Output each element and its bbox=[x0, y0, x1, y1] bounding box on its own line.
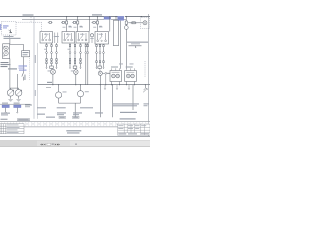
dashed vert right bbox=[144, 61, 146, 77]
fuse S3 drop bbox=[77, 17, 79, 21]
lamp H5 bbox=[98, 71, 102, 75]
inline connectors row4 bbox=[46, 61, 104, 64]
lamp H3 below bus bbox=[58, 85, 60, 92]
connector T3 inline bbox=[130, 22, 136, 24]
column wire c1 bbox=[46, 43, 48, 68]
title block right bbox=[118, 124, 150, 135]
dashed enclosure left bbox=[2, 22, 17, 36]
blue link box L2 bbox=[14, 105, 21, 108]
label text left of box bbox=[1, 119, 8, 120]
section divider2 bbox=[37, 43, 39, 119]
node J5 bbox=[97, 16, 98, 17]
bottom wires to labels bbox=[75, 85, 133, 118]
valve group Y2 box bbox=[125, 71, 137, 82]
connector box above H2 bbox=[73, 66, 77, 68]
motor M5 small bbox=[90, 34, 93, 37]
node J3 bbox=[77, 16, 78, 17]
column wire c6 bbox=[80, 43, 82, 68]
legend table bottom left bbox=[0, 124, 24, 134]
blue link box B1 bbox=[118, 16, 124, 18]
node dots bus31 bbox=[52, 84, 135, 85]
ruler numbers bbox=[3, 123, 148, 126]
blue link box L1 bbox=[2, 105, 9, 108]
drawing bottom border bbox=[0, 135, 150, 137]
fuse S4 drop bbox=[96, 17, 98, 21]
bottom label texts bbox=[1, 103, 149, 117]
column wire c3 bbox=[56, 43, 58, 68]
node J8 bbox=[141, 16, 142, 17]
wire below relay bbox=[23, 57, 25, 73]
ground G3g bbox=[16, 99, 21, 101]
bus31 label bbox=[47, 82, 52, 83]
wire below dashed bbox=[8, 35, 10, 37]
ground G2g bbox=[8, 99, 13, 101]
fuse S2 drop bbox=[66, 17, 68, 21]
title line above block bbox=[120, 118, 136, 119]
connector T1 inline bbox=[48, 21, 53, 23]
dashed vert drop to K1 bbox=[41, 22, 43, 31]
wire battery down bbox=[9, 59, 11, 90]
current track ruler bbox=[0, 121, 150, 127]
column wire c9 bbox=[103, 44, 105, 68]
wire end arrows bbox=[46, 68, 104, 69]
wire drop x109 bbox=[109, 17, 111, 32]
rotated text bbox=[24, 75, 25, 81]
relay K5 small box bbox=[22, 51, 30, 57]
label box T4b bbox=[73, 116, 80, 118]
wires below blue boxes bbox=[6, 108, 18, 112]
wire stub left bbox=[46, 87, 51, 89]
node J2 bbox=[66, 16, 67, 17]
connector box above H5 bbox=[98, 66, 102, 68]
lamp H1 bbox=[50, 69, 55, 74]
generator C circle bbox=[4, 46, 8, 50]
sender G3 bbox=[15, 90, 22, 97]
connector box above H1 bbox=[50, 66, 54, 68]
column wire c2 bbox=[51, 43, 53, 66]
dashed vert top bbox=[30, 17, 32, 22]
title center text bbox=[66, 130, 81, 133]
viewer toolbar bbox=[0, 141, 150, 147]
control unit U1 tall box bbox=[114, 20, 119, 46]
node J7 bbox=[126, 16, 127, 17]
lamp H4 below bus bbox=[80, 85, 82, 91]
column wire c6b bbox=[85, 43, 87, 85]
dashed horiz top bbox=[16, 21, 42, 23]
wire bus 15 second bbox=[22, 18, 126, 20]
blue text cluster bbox=[19, 66, 28, 67]
starter B circle bbox=[4, 51, 8, 55]
text row left bbox=[4, 36, 14, 37]
fuse S5 right bbox=[125, 17, 127, 21]
wire horiz y103 bbox=[59, 102, 81, 104]
column wire c6c bbox=[87, 43, 89, 85]
connector T2 inline bbox=[92, 21, 97, 23]
lamp E9 right bbox=[124, 26, 128, 30]
wire bus 30 top bbox=[0, 16, 150, 18]
column wire c8 bbox=[99, 44, 101, 66]
wire vert right A bbox=[119, 21, 121, 69]
text row right bbox=[127, 42, 148, 43]
relay K4 box bbox=[95, 32, 109, 45]
margin blue text bbox=[0, 24, 1, 30]
inline connectors row3 bbox=[46, 59, 81, 61]
label kl.30 text bbox=[23, 14, 34, 15]
column wire c5 bbox=[74, 43, 76, 66]
wire battery top bbox=[10, 39, 24, 51]
dashed enclosure right bbox=[141, 18, 150, 29]
node J6 bbox=[109, 16, 110, 17]
connector row small bbox=[103, 72, 111, 74]
label box J301 bbox=[18, 119, 30, 121]
relay K3 box bbox=[76, 32, 89, 44]
wire horiz y88 bbox=[10, 87, 19, 89]
lamp E10 in dashed box bbox=[143, 21, 147, 25]
switch S10 bbox=[22, 73, 24, 81]
inline connectors row2 bbox=[46, 52, 105, 54]
wire to dashed box bbox=[128, 22, 143, 24]
wire lamp drops bbox=[53, 74, 76, 85]
lamp H2 bbox=[74, 70, 79, 75]
label kl.15 text bbox=[92, 14, 102, 15]
inline connectors row1 bbox=[46, 45, 104, 47]
sender G2 bbox=[7, 90, 14, 97]
wire horiz y104.7 bbox=[0, 103, 31, 105]
column wire c7 bbox=[96, 44, 98, 68]
ground arrow right bbox=[144, 85, 146, 89]
relay K2 box bbox=[62, 32, 75, 44]
toolbar nav icons bbox=[40, 143, 77, 145]
arrow marks below bbox=[5, 112, 18, 113]
blue text in box bbox=[3, 25, 9, 26]
text above blue boxes bbox=[2, 103, 8, 104]
dashed vert left bbox=[28, 58, 30, 80]
ignition switch marks bbox=[9, 29, 12, 33]
connector T2c inline bbox=[72, 21, 77, 23]
page border right bbox=[148, 14, 150, 136]
blue link box B2 bbox=[118, 19, 124, 21]
node J4 bbox=[89, 16, 90, 17]
wire x17 bbox=[16, 74, 18, 89]
wire interbox a bbox=[55, 33, 58, 44]
column wire c4 bbox=[69, 43, 71, 68]
relay K1 box bbox=[40, 32, 53, 44]
rotated text2 bbox=[35, 55, 36, 63]
connector T2b inline bbox=[61, 21, 66, 23]
blue link box F28 bbox=[104, 17, 111, 20]
arrows below bus bbox=[104, 88, 130, 89]
misc tiny labels bbox=[44, 26, 134, 93]
text cluster left bbox=[1, 62, 9, 63]
section divider bbox=[33, 17, 35, 119]
wire x106 drop bbox=[105, 74, 107, 85]
valve group Y1 box bbox=[110, 71, 122, 82]
label box T4a bbox=[59, 116, 66, 118]
wire drop x89 bbox=[88, 17, 90, 32]
wire bus 31 bbox=[38, 84, 151, 86]
battery A box bbox=[3, 44, 10, 59]
